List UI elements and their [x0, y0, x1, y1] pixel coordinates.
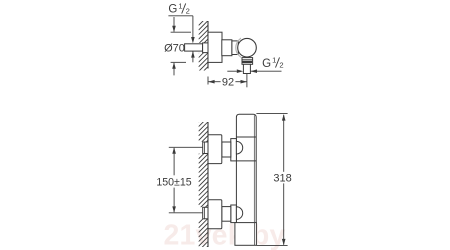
svg-text:150±15: 150±15: [156, 176, 191, 188]
svg-text:G: G: [168, 4, 177, 16]
svg-text:1: 1: [178, 2, 182, 11]
svg-text:92: 92: [222, 76, 234, 88]
svg-text:Ø70: Ø70: [164, 43, 185, 55]
svg-text:2: 2: [186, 6, 190, 15]
svg-text:318: 318: [273, 172, 291, 184]
svg-text:G: G: [262, 58, 271, 70]
svg-text:2: 2: [279, 61, 283, 70]
svg-text:1: 1: [272, 56, 276, 65]
